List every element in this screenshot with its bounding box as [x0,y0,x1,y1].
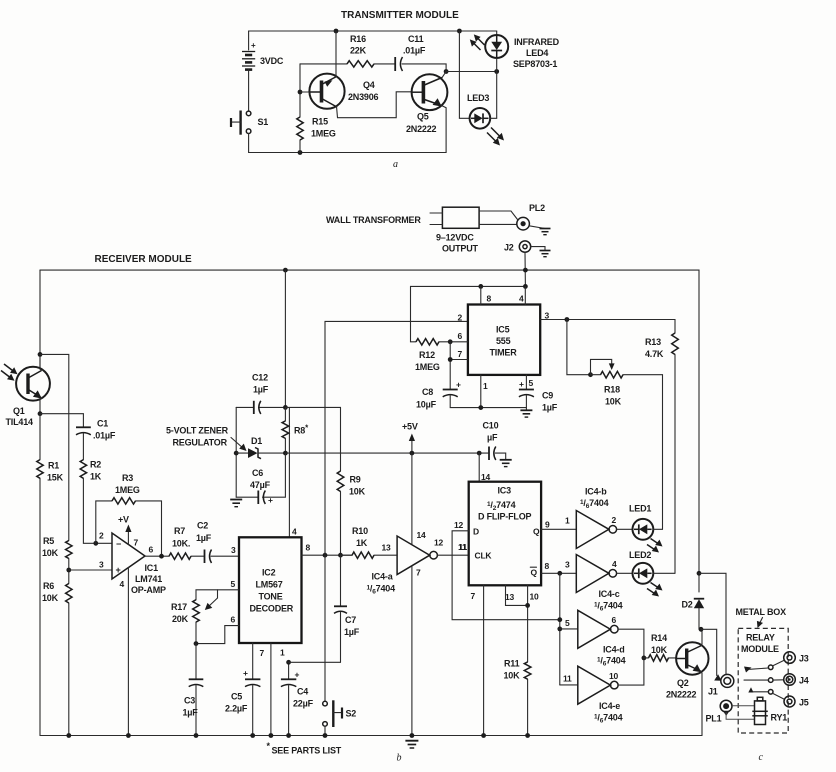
node rail S2 [323,733,328,738]
svg-text:10K: 10K [605,397,622,407]
svg-text:R1: R1 [48,461,59,471]
svg-text:R10: R10 [352,526,368,536]
resistor R10 1K [341,554,353,556]
R18 wiper [591,359,612,374]
wire Q-bar down to D feedback / IC4-d [559,573,561,685]
jack J4 [784,674,809,686]
svg-text:−: − [116,539,121,549]
svg-text:C3: C3 [184,696,195,706]
node LED4 cathode junction [494,69,499,74]
svg-text:SEE PARTS LIST: SEE PARTS LIST [272,746,342,756]
svg-text:METAL BOX: METAL BOX [736,607,787,617]
svg-text:+: + [243,668,248,678]
svg-text:R18: R18 [604,385,620,395]
svg-text:22µF: 22µF [293,699,314,709]
jack J3 [784,652,809,664]
svg-text:7: 7 [471,591,476,601]
node Q4 base junction [298,90,303,95]
wire IC3 pin7 to rail [483,585,485,735]
capacitor C6 47uF [250,468,273,505]
node IC4-d input junction [557,627,562,632]
svg-text:6: 6 [458,331,463,341]
svg-text:OP-AMP: OP-AMP [131,585,166,595]
svg-text:DECODER: DECODER [250,604,294,614]
wire C11 to collector node [402,64,446,72]
svg-text:555: 555 [496,336,511,346]
svg-text:.01µF: .01µF [403,46,426,56]
wire V+ distribution (555 supply) [411,285,526,287]
node pin6/pin7 tie [448,339,453,344]
svg-text:R13: R13 [645,337,661,347]
capacitor C7 1uF [334,555,360,662]
op-amp IC1 LM741 [99,531,166,596]
svg-text:C7: C7 [345,615,356,625]
wire Q4 base node vertical [299,64,301,117]
svg-text:6: 6 [149,545,154,555]
svg-text:4: 4 [292,527,297,537]
wire C10 to ground [495,453,505,459]
wire 555 pin3 output [540,320,675,334]
svg-text:C1: C1 [97,419,108,429]
svg-text:TRANSMITTER MODULE: TRANSMITTER MODULE [341,10,459,21]
node 555 pin8 supply [478,284,483,289]
svg-text:C8: C8 [422,387,433,397]
resistor R16 22K [347,61,374,67]
svg-text:22K: 22K [350,46,367,56]
IC5 box [468,305,540,375]
node rail C3 [194,733,199,738]
svg-text:LED2: LED2 [629,550,651,560]
node rail C4 [286,733,291,738]
wire collector node over to R5 line [40,354,69,540]
svg-text:MODULE: MODULE [741,644,779,654]
svg-text:LED3: LED3 [467,93,489,103]
svg-text:2N2222: 2N2222 [666,690,697,700]
svg-text:IC4-d: IC4-d [603,645,625,655]
wire C2 to IC2 pin3 [211,555,239,557]
wire collector node to LED4 bottom [446,71,497,73]
svg-text:TIMER: TIMER [490,348,518,358]
svg-text:SEP8703-1: SEP8703-1 [513,59,557,69]
svg-text:LM741: LM741 [135,574,162,584]
svg-text:9–12VDC: 9–12VDC [436,233,474,243]
capacitor C5 2.2uF [225,668,260,714]
svg-text:R5: R5 [43,536,54,546]
svg-text:4: 4 [519,294,524,304]
wire C9 to ground [525,396,527,410]
svg-text:Q1: Q1 [13,406,25,416]
svg-text:PL1: PL1 [706,714,722,724]
wire IC2 pin4 up to V+ [288,407,290,537]
svg-text:R6: R6 [43,581,54,591]
svg-text:1: 1 [280,648,285,658]
node pins13-10 junction [525,603,530,608]
capacitor C9 1uF [519,379,558,413]
capacitor C3 1uF [183,679,204,717]
transformer left leads [430,212,442,214]
wire IC4-a pin14 [411,453,413,544]
svg-text:15K: 15K [47,473,64,483]
svg-text:IC4-a: IC4-a [372,572,394,582]
inverter IC4-c [576,555,622,613]
svg-text:4.7K: 4.7K [645,349,664,359]
resistor R12 1MEG [416,339,439,345]
wire R18 right down to LED1 [623,375,663,530]
transistor Q2 2N2222 [666,642,709,699]
node pin3 junction [66,568,71,573]
wire pin3 branch down to R18 [567,320,591,375]
R17 wiper arrow [217,590,219,598]
wire C3 to rail [195,686,197,736]
wire D input feedback [452,531,560,620]
svg-text:10: 10 [530,592,540,602]
node D2 bottom / Q2 collector [699,627,704,632]
switch S2 [323,700,357,735]
relay contact arm to J3 [744,660,784,672]
svg-text:J3: J3 [799,654,809,664]
node Q1 collector junction [38,352,43,357]
resistor R15 1MEG [297,117,303,140]
svg-text:RECEIVER MODULE: RECEIVER MODULE [95,254,193,265]
wire Q2 collector up to D2 node [700,629,703,646]
svg-text:IC4-e: IC4-e [599,701,620,711]
svg-text:IC5: IC5 [496,325,510,335]
svg-text:J4: J4 [799,676,809,686]
resistor R3 1MEG [112,498,136,504]
svg-text:Q: Q [531,568,538,578]
svg-text:Q5: Q5 [417,112,429,122]
resistor R2 1K [80,460,86,479]
ground below C6 [230,500,242,507]
wire R5 to R6 [68,559,70,584]
node rail C5 [250,733,255,738]
svg-text:+: + [519,379,524,389]
transistor Q4 2N3906 [300,31,379,109]
svg-text:1: 1 [565,516,570,526]
switch S1 [231,111,268,153]
svg-text:IC3: IC3 [498,486,512,496]
node rail R6 [66,733,71,738]
svg-text:20K: 20K [172,614,189,624]
potentiometer R18 10K [601,371,624,378]
wire IC2 pin7 down [252,643,254,679]
wire R12 supply link [411,286,417,341]
svg-text:5: 5 [231,579,236,589]
svg-text:C10: C10 [483,421,499,431]
svg-text:5: 5 [565,618,570,628]
wire Q1 collector to node [40,354,42,370]
wire Q4 collector to Q5 base [337,92,412,118]
wire base node to R16 [300,63,347,65]
potentiometer R17 20K [193,600,200,622]
svg-text:2N2222: 2N2222 [406,124,437,134]
svg-text:Q: Q [533,527,540,537]
svg-text:6: 6 [612,615,617,625]
wire pin4 to ground rail [127,568,129,736]
svg-text:C12: C12 [252,373,268,383]
wire C5 to rail [252,686,254,736]
transistor Q5 2N2222 [406,74,447,134]
svg-text:LED4: LED4 [526,48,548,58]
svg-text:2: 2 [99,531,104,541]
svg-text:S1: S1 [258,117,269,127]
resistor R1 15K [37,460,43,479]
svg-text:11: 11 [563,674,572,684]
node C12 branch on top rail [283,268,288,273]
node pin1 ground junction [478,405,483,410]
relay module dashed box [738,628,788,733]
svg-text:2N3906: 2N3906 [348,92,379,102]
svg-text:10: 10 [609,671,619,681]
wire bottom rail [40,735,702,737]
resistor R14 10K [649,655,669,662]
wire C1 to R2 [82,434,84,460]
wire J2 down to rails [524,252,526,286]
svg-text:IC4-b: IC4-b [585,487,607,497]
svg-text:+5V: +5V [402,422,418,432]
node rail IC2 pin1 [269,733,274,738]
svg-text:IC1: IC1 [145,563,159,573]
node D1 cathode / R8 bottom (+5V) [283,451,288,456]
svg-text:.01µF: .01µF [93,431,116,441]
wire IC4-e input [560,684,578,686]
svg-text:7: 7 [458,349,463,359]
node C4 top junction [286,660,291,665]
main ground symbol [405,741,418,748]
svg-text:10K: 10K [651,645,668,655]
wire C8 bottom to ground wire [450,396,526,408]
node top rail / Q4 emitter junction [334,29,339,34]
svg-text:10K: 10K [42,548,59,558]
wire C6 branch [236,496,257,498]
wire transformer to PL2 bottom [479,223,517,225]
wire C12 branch from top rail [284,270,286,407]
svg-text:4: 4 [120,579,125,589]
node R17 bottom / C3 [194,641,199,646]
battery B1 3VDC [242,31,284,111]
LED4 infrared SEP8703-1 [485,31,508,72]
jack J5 [784,696,809,708]
node D feedback junction [557,617,562,622]
svg-text:5: 5 [529,378,534,388]
svg-text:8: 8 [487,294,492,304]
node rail IC3 pin7 [481,733,486,738]
wire IC2 pin8 output [302,554,353,556]
svg-text:+: + [268,495,273,505]
wire feedback loop R3 [96,501,112,543]
node R15 bottom on rail [298,150,303,155]
wire left rail down to Q1 [39,270,41,369]
wire C4 to rail [288,686,290,736]
wire R12 to pin6 [439,341,468,343]
node pin8/555 branch [323,553,328,558]
svg-text:µF: µF [487,433,498,443]
diode D2 [682,573,705,629]
wire 555 pin8 supply [480,286,482,304]
svg-text:*: * [267,741,271,751]
wire R7 to C2 [191,555,204,557]
node C12/R8/V+ junction [283,405,288,410]
svg-text:D2: D2 [682,600,693,610]
wire IC2 pin1 down [270,643,272,736]
svg-text:TIL414: TIL414 [6,417,34,427]
wire pin3 [69,569,112,571]
svg-text:REGULATOR: REGULATOR [173,438,228,448]
wire pin7 tie [449,342,451,389]
svg-text:2: 2 [458,313,463,323]
wire C4 branch [288,662,290,678]
svg-text:WALL TRANSFORMER: WALL TRANSFORMER [326,215,421,225]
svg-text:R16: R16 [350,34,366,44]
resistor R13 4.7K [672,333,679,355]
wire R2 down to op-amp pin2 [83,478,112,543]
Q1 incoming light arrows [1,364,18,381]
node pin3/R18 branch [565,317,570,322]
svg-text:R11: R11 [504,659,520,669]
phototransistor Q1 TIL414 [6,367,50,427]
svg-text:6: 6 [231,615,236,625]
wire Q1 emitter to node [40,398,42,414]
svg-text:R14: R14 [651,633,667,643]
capacitor C11 .01uF [395,34,426,71]
svg-text:3VDC: 3VDC [260,56,284,66]
relay contact arm to J4 [744,678,784,683]
LED1 [617,504,654,540]
node rail R11 [525,733,530,738]
node Q-bar feedback [557,571,562,576]
node paralleled outputs [642,656,647,661]
wire IC4-e output to R14 node [618,658,644,685]
inverter IC4-b [576,487,616,549]
resistor R8* [282,421,289,439]
wire R10 to IC4-a [374,554,397,556]
svg-text:S2: S2 [346,709,357,719]
node rail IC1 pin4 [126,733,131,738]
LED1 emission arrows [647,539,663,553]
svg-text:C4: C4 [297,687,308,697]
svg-text:13: 13 [505,592,515,602]
wire Q2 emitter down to rail [701,671,703,736]
jack J2 [504,241,531,253]
LED3 [467,93,490,129]
svg-text:10K: 10K [349,487,366,497]
svg-text:Q2: Q2 [677,678,689,688]
node top rail / LED3 branch junction [457,29,462,34]
wire IC4-d output to R14 node [618,629,644,658]
wire R16 to C11 [374,63,394,65]
svg-text:Q4: Q4 [363,80,375,90]
wire Q output pin9 to IC4-b [541,528,576,530]
wire 555 pin1 down [480,375,482,408]
ground at PL2 [529,226,550,235]
node Q1 emitter junction [38,411,43,416]
wire output pin6 [145,555,169,557]
svg-text:R2: R2 [90,460,101,470]
svg-text:TONE: TONE [259,592,283,602]
node J2 to V+ wire [523,284,528,289]
wire R11 to rail [527,679,529,735]
svg-text:8: 8 [306,543,311,553]
node rail IC4 pin7 / main ground [410,733,415,738]
svg-text:1µF: 1µF [253,385,269,395]
svg-text:C6: C6 [252,468,263,478]
capacitor C8 10uF [416,380,461,410]
svg-text:D: D [473,527,479,537]
svg-text:1K: 1K [90,472,102,482]
wire V+ raw to R9 [285,406,340,408]
svg-text:+: + [251,41,256,50]
node D2 top / relay feed [697,571,702,576]
node Q5 collector / LED junction [444,69,449,74]
svg-text:LM567: LM567 [256,580,283,590]
node D1 anode junction [234,451,239,456]
wall transformer box [442,207,479,228]
ground at J2 [531,247,551,257]
+V arrow to pin 7 [118,515,132,545]
svg-text:11: 11 [459,542,468,552]
svg-text:IC4-c: IC4-c [599,589,620,599]
wire +5V rail [285,452,488,454]
svg-text:1µF: 1µF [542,403,558,413]
svg-text:+V: +V [118,515,129,525]
svg-text:+: + [456,380,461,390]
LED2 emission arrows [647,583,663,597]
IC3 box [469,482,541,586]
svg-text:13: 13 [382,543,392,553]
inverter IC4-a [367,530,444,596]
node output/feedback [159,554,164,559]
wire LED3 right to LED4 node [490,72,497,119]
wire 555 pin4 supply [524,286,526,304]
svg-text:J2: J2 [504,243,514,253]
wire pins 13/10 tie [506,585,528,605]
wire transformer to PL2 top [479,211,517,220]
resistor R6 10K [66,584,72,604]
capacitor C2 1uF [196,521,212,564]
svg-text:7: 7 [416,568,421,578]
svg-text:12: 12 [434,538,444,548]
svg-text:1: 1 [483,381,488,391]
svg-text:IC2: IC2 [262,568,276,578]
ground below C9 [520,410,532,417]
node pin8/R9-C7 [338,553,343,558]
wire S2 link down [324,555,326,701]
svg-text:a: a [393,159,398,170]
svg-text:C2: C2 [197,521,208,531]
plug PL2 [517,203,545,230]
svg-text:CLK: CLK [475,551,493,561]
svg-text:D1: D1 [251,436,262,446]
zener diode D1 [236,436,285,459]
svg-text:+: + [116,565,121,575]
svg-text:8: 8 [545,561,550,571]
svg-text:c: c [759,752,764,763]
svg-text:C9: C9 [542,391,553,401]
svg-text:R3: R3 [122,473,133,483]
wire to C3 [195,644,197,679]
wire C12 left down to D1 anode [235,407,237,497]
svg-text:10K: 10K [504,671,521,681]
wire C12 horizontal [236,406,253,408]
wire IC3 pin14 [478,453,480,482]
svg-text:LED1: LED1 [629,504,651,514]
svg-text:10µF: 10µF [416,400,437,410]
svg-text:47µF: 47µF [250,480,271,490]
svg-text:4: 4 [612,559,617,569]
wire +V to J1 sleeve [699,573,726,674]
wire bottom rail (transmitter) [249,152,447,154]
svg-text:D FLIP-FLOP: D FLIP-FLOP [478,512,531,522]
